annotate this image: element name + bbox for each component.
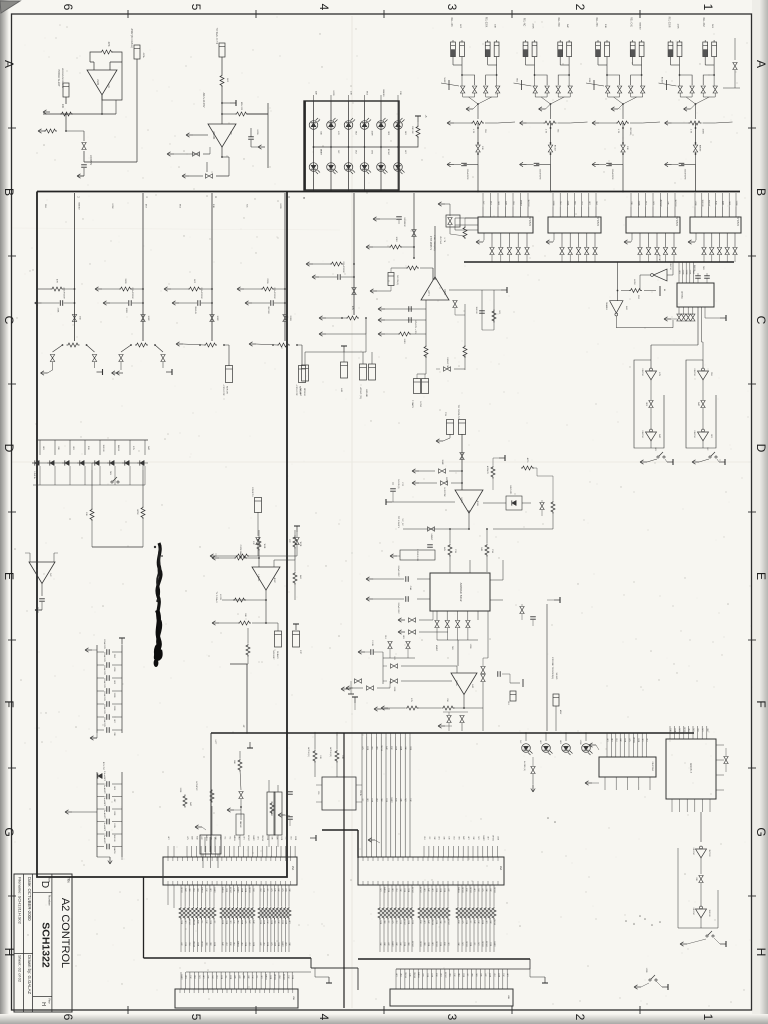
diode lower stubs bbox=[39, 466, 41, 485]
connector J21 inner pin marks bbox=[167, 857, 169, 861]
channel area box bbox=[37, 192, 287, 878]
svg-text:0.3mA NPT: 0.3mA NPT bbox=[103, 833, 106, 844]
LED column top labels bbox=[313, 95, 315, 101]
svg-text:JPW2 (3C CABLE): JPW2 (3C CABLE) bbox=[130, 28, 133, 48]
svg-text:2K2: 2K2 bbox=[229, 920, 231, 923]
svg-text:15K: 15K bbox=[79, 316, 81, 320]
capacitor CB3 bbox=[606, 162, 612, 164]
ground bbox=[680, 943, 687, 945]
svg-text:220N: 220N bbox=[263, 888, 265, 893]
resistor R37 bbox=[463, 226, 467, 239]
relay block K1 bowtie row bbox=[461, 86, 465, 93]
relay block K2 lower wire bbox=[550, 152, 552, 165]
svg-text:0R0: 0R0 bbox=[188, 888, 190, 891]
relay block K2 vertical bbox=[550, 123, 552, 145]
relay block K1 left T bbox=[441, 83, 459, 86]
wire J2 down bbox=[221, 57, 223, 74]
series resistor R166 bbox=[403, 885, 405, 906]
bowtie R105 bbox=[540, 503, 544, 510]
wire bbox=[239, 835, 241, 847]
wire U21 to buffers bbox=[697, 307, 699, 345]
long arrow bbox=[319, 317, 326, 319]
svg-text:2N7002: 2N7002 bbox=[492, 835, 494, 841]
diode lower rail bbox=[33, 484, 145, 486]
svg-text:330R: 330R bbox=[220, 975, 222, 980]
svg-text:2N7002: 2N7002 bbox=[469, 887, 471, 893]
LED DS5 bbox=[377, 121, 386, 130]
channel 3 output box bbox=[224, 344, 229, 346]
power bar bbox=[639, 291, 658, 293]
svg-text:CH1: CH1 bbox=[184, 975, 186, 979]
channel 3 series resistor bbox=[204, 343, 217, 347]
power bbox=[720, 317, 726, 319]
svg-text:BC847: BC847 bbox=[411, 941, 413, 947]
svg-text:BAV99: BAV99 bbox=[117, 445, 120, 452]
svg-text:1N4148: 1N4148 bbox=[192, 919, 194, 925]
svg-text:BC847: BC847 bbox=[444, 972, 446, 978]
LED row 4 wires bbox=[525, 733, 527, 741]
svg-text:MDC/4P1: MDC/4P1 bbox=[509, 486, 511, 496]
svg-text:220K: 220K bbox=[57, 308, 59, 313]
svg-text:3: 3 bbox=[445, 4, 459, 11]
svg-text:CH1: CH1 bbox=[395, 888, 397, 892]
LED DS12 bbox=[394, 163, 403, 172]
component J2 box bbox=[219, 43, 225, 57]
resistor RB1 bbox=[471, 121, 484, 125]
svg-text:1N4148: 1N4148 bbox=[192, 941, 194, 947]
series resistor R135 bbox=[277, 885, 279, 906]
svg-text:1K2: 1K2 bbox=[452, 836, 454, 839]
node junction A1 bbox=[101, 113, 103, 115]
svg-text:4N7: 4N7 bbox=[440, 973, 442, 976]
channel 4 capacitor bbox=[270, 300, 272, 306]
LED DS1 bbox=[309, 121, 318, 130]
svg-text:4.7K: 4.7K bbox=[690, 129, 692, 134]
series resistor R131 bbox=[184, 885, 186, 906]
svg-text:0.3mA NPT: 0.3mA NPT bbox=[103, 783, 106, 794]
svg-text:BAV99: BAV99 bbox=[233, 835, 236, 840]
svg-text:1N4148: 1N4148 bbox=[261, 835, 263, 841]
svg-text:0.3mA NPT: 0.3mA NPT bbox=[103, 771, 106, 782]
svg-text:CH1: CH1 bbox=[242, 836, 244, 840]
svg-text:BC847: BC847 bbox=[485, 941, 487, 947]
series resistor R165 bbox=[399, 885, 401, 906]
bowtie R100 bbox=[460, 453, 464, 460]
relay block K1 drop to latch bbox=[477, 165, 479, 192]
svg-text:100R: 100R bbox=[469, 942, 471, 947]
resistor R30 bbox=[330, 262, 343, 266]
IC U21 pins up bbox=[678, 262, 680, 283]
relay block K1 vertical bbox=[477, 123, 479, 145]
svg-text:SUB&8Y: SUB&8Y bbox=[276, 651, 278, 660]
series resistor R135 bbox=[240, 885, 242, 906]
channel 3 input arrow bbox=[164, 288, 171, 290]
svg-text:CLK: CLK bbox=[710, 372, 712, 377]
resistor R95 bbox=[238, 621, 251, 625]
switch SW5 bbox=[706, 935, 708, 937]
wire J11 down bbox=[461, 434, 463, 490]
relay block K4 drop to latch bbox=[695, 165, 697, 192]
bus line H2 bbox=[311, 967, 358, 969]
series resistor R168 bbox=[489, 885, 491, 906]
ladder F capacitor C53 bbox=[97, 690, 104, 692]
svg-text:100R: 100R bbox=[407, 920, 409, 925]
ladder F capacitor C51 bbox=[97, 664, 104, 666]
wires left of latch1 bbox=[455, 217, 478, 219]
svg-text:4 TRU STR: 4 TRU STR bbox=[295, 385, 297, 396]
relay block K4 vertical bbox=[695, 123, 697, 145]
svg-text:100R: 100R bbox=[427, 942, 429, 947]
ground bbox=[35, 609, 42, 611]
IC U21 pins down bbox=[678, 307, 680, 315]
svg-text:LM45: LM45 bbox=[96, 79, 99, 86]
bowtie R142 bbox=[724, 757, 728, 764]
svg-text:H: H bbox=[40, 1002, 46, 1006]
buffer U31b bbox=[702, 408, 704, 429]
wire out left bbox=[222, 599, 266, 601]
svg-text:100N: 100N bbox=[409, 746, 411, 751]
svg-text:V.C_2V: V.C_2V bbox=[401, 519, 403, 527]
svg-text:220nF/100V: 220nF/100V bbox=[273, 287, 275, 299]
channel 2 capacitor bbox=[128, 300, 130, 306]
svg-text:2K2: 2K2 bbox=[260, 975, 262, 978]
svg-text:1K2: 1K2 bbox=[477, 942, 479, 945]
IC U51 hatch pins bbox=[606, 733, 608, 757]
svg-text:330R: 330R bbox=[481, 920, 483, 925]
arrow in bbox=[306, 263, 313, 265]
wire chains top link bbox=[650, 344, 652, 346]
junction bbox=[65, 130, 67, 132]
junction bbox=[65, 113, 67, 115]
series resistor R132 bbox=[229, 885, 231, 906]
arrow bbox=[589, 744, 596, 746]
cap C80 bbox=[530, 616, 536, 618]
LED mid rail bbox=[314, 146, 399, 148]
capacitor CB2 bbox=[534, 162, 540, 164]
LED DS7 bbox=[309, 163, 318, 172]
series resistor R137 bbox=[209, 885, 211, 906]
svg-text:100N: 100N bbox=[274, 942, 276, 947]
resistor R39 bbox=[398, 332, 411, 336]
relay box K10 bbox=[322, 777, 356, 810]
channel 2 vertical wire bbox=[142, 193, 144, 341]
svg-text:2N7002: 2N7002 bbox=[461, 887, 463, 893]
ladder F capacitor C50 bbox=[97, 651, 104, 653]
svg-text:2: 2 bbox=[573, 4, 587, 11]
diode row top rail bbox=[37, 439, 148, 441]
svg-text:4N7: 4N7 bbox=[375, 798, 377, 801]
svg-text:100N: 100N bbox=[113, 823, 115, 828]
switch SW31 ground bbox=[692, 461, 699, 463]
switch SW31 power bbox=[719, 461, 725, 463]
ink smudge mark bbox=[157, 543, 161, 657]
left caps arrows bbox=[378, 308, 385, 310]
svg-text:120K: 120K bbox=[588, 78, 590, 83]
scan corner mark top-left bbox=[0, 1, 20, 13]
svg-text:220N: 220N bbox=[281, 920, 283, 925]
series resistor R167 bbox=[447, 885, 449, 906]
svg-text:560R: 560R bbox=[637, 738, 639, 743]
svg-text:47N: 47N bbox=[132, 446, 134, 450]
series resistor R162 bbox=[427, 885, 429, 906]
channel 3 resistor Rn1 bbox=[188, 287, 201, 291]
wire v547 bbox=[546, 604, 548, 731]
svg-text:5: 5 bbox=[189, 1014, 203, 1021]
component box J7 bbox=[293, 631, 300, 647]
scan edge shading right bbox=[0, 0, 1, 1]
resistor R106 bbox=[551, 501, 555, 514]
svg-text:ACT-H2(2): ACT-H2(2) bbox=[329, 747, 332, 757]
series resistor R164 bbox=[473, 885, 475, 906]
svg-text:8K2: 8K2 bbox=[431, 942, 433, 945]
wire feedback right bbox=[247, 103, 268, 168]
svg-text:C: C bbox=[754, 316, 768, 325]
svg-text:220nF/LPN: 220nF/LPN bbox=[684, 169, 686, 180]
svg-text:J5A: J5A bbox=[291, 866, 294, 871]
power T bbox=[499, 457, 505, 459]
svg-text:BC847: BC847 bbox=[387, 149, 389, 156]
svg-text:74HC04: 74HC04 bbox=[693, 368, 695, 376]
bowtie C33 bbox=[444, 367, 451, 371]
series resistor R131 bbox=[263, 885, 265, 906]
wire J5 down bbox=[257, 512, 259, 536]
component X3 crystal box bbox=[63, 83, 69, 97]
feedback cap bbox=[497, 671, 499, 677]
ladder G capacitor C60 bbox=[97, 783, 104, 785]
svg-text:F: F bbox=[2, 700, 16, 707]
svg-text:2N7002: 2N7002 bbox=[267, 306, 269, 314]
diode D5 bbox=[99, 440, 101, 455]
svg-text:0R0: 0R0 bbox=[471, 973, 473, 976]
wire to boxes bbox=[266, 622, 278, 624]
wire long v bbox=[246, 664, 248, 733]
svg-text:10K: 10K bbox=[61, 104, 64, 109]
svg-text:BAV99: BAV99 bbox=[78, 203, 81, 210]
svg-text:220K: 220K bbox=[689, 270, 691, 275]
svg-text:STROBE TRIGGER(1): STROBE TRIGGER(1) bbox=[551, 657, 553, 679]
buffer chain bottom bbox=[700, 918, 702, 928]
wire down right bbox=[365, 318, 367, 334]
switch SW30 ground bbox=[640, 461, 647, 463]
buffer U53a bbox=[700, 846, 703, 849]
channel 1 fork ends bbox=[52, 362, 54, 370]
ground bbox=[532, 785, 534, 792]
svg-text:220N: 220N bbox=[266, 836, 268, 841]
svg-text:IDT/HC: IDT/HC bbox=[680, 291, 682, 299]
svg-text:74HC04: 74HC04 bbox=[692, 847, 694, 855]
node bbox=[413, 257, 415, 259]
svg-text:100R: 100R bbox=[645, 968, 647, 973]
IC U41 right pins bbox=[490, 579, 503, 581]
IC U52 side pins bbox=[716, 744, 724, 746]
svg-text:220nF/100V: 220nF/100V bbox=[63, 287, 65, 299]
IC U41 left pins bbox=[417, 578, 430, 580]
svg-text:74HC574: 74HC574 bbox=[675, 216, 678, 227]
series resistor R135 bbox=[201, 885, 203, 906]
svg-text:F: F bbox=[754, 700, 768, 707]
relay block K1 fork bbox=[463, 93, 475, 97]
power T right bbox=[554, 599, 560, 601]
svg-text:A/5WLT1: A/5WLT1 bbox=[486, 466, 489, 475]
bowtie RB1b bbox=[476, 145, 480, 152]
svg-text:100R: 100R bbox=[147, 316, 149, 321]
channel 2 fork ends bbox=[120, 362, 122, 370]
resistor R50 bbox=[220, 74, 224, 87]
IC latch U10 box bbox=[478, 217, 533, 233]
wires from bus bbox=[314, 733, 316, 749]
svg-text:100N: 100N bbox=[497, 836, 499, 841]
channel 2 resistor Rn1 bbox=[119, 287, 132, 291]
svg-text:P/LDB TX: P/LDB TX bbox=[251, 487, 253, 497]
svg-text:220nF/63V: 220nF/63V bbox=[103, 704, 105, 714]
wire J10 gnd bbox=[449, 434, 451, 438]
svg-text:560R: 560R bbox=[443, 78, 445, 83]
svg-text:0R0: 0R0 bbox=[209, 942, 211, 945]
svg-text:1K2: 1K2 bbox=[193, 975, 195, 978]
svg-text:330R: 330R bbox=[221, 920, 223, 925]
feedback wire right bbox=[493, 512, 553, 529]
svg-text:CH1: CH1 bbox=[257, 836, 259, 840]
svg-text:0R0: 0R0 bbox=[380, 798, 382, 801]
svg-text:4: 4 bbox=[317, 4, 331, 11]
IC latch U10 pins down bbox=[491, 233, 493, 247]
IC latch U12 lower bowties bbox=[638, 248, 642, 255]
switch SW31 bbox=[709, 456, 711, 458]
svg-text:1K2: 1K2 bbox=[678, 728, 680, 731]
relay block K3 drop to latch bbox=[622, 165, 624, 192]
channel 1 resistor Rn1 bbox=[51, 287, 64, 291]
diode D2 bbox=[54, 440, 56, 455]
bowtie R53 bbox=[206, 174, 213, 178]
svg-text:45 CH4: 45 CH4 bbox=[439, 236, 441, 244]
series resistor R134 bbox=[237, 885, 239, 906]
ladder F capacitor C56 bbox=[97, 729, 104, 731]
svg-text:MMBT: MMBT bbox=[252, 835, 254, 841]
svg-text:MMBT: MMBT bbox=[281, 941, 283, 947]
svg-text:220N: 220N bbox=[289, 316, 291, 321]
svg-text:1N4148: 1N4148 bbox=[701, 199, 703, 207]
svg-text:100N: 100N bbox=[469, 644, 471, 649]
zener D30 bbox=[98, 773, 102, 778]
resistor R51 bbox=[235, 112, 248, 116]
svg-text:47K: 47K bbox=[107, 42, 111, 47]
wire to opamp bbox=[221, 86, 223, 124]
svg-text:CH1: CH1 bbox=[395, 920, 397, 924]
svg-text:B: B bbox=[302, 197, 306, 199]
svg-text:100N: 100N bbox=[225, 888, 227, 893]
series resistor R166 bbox=[481, 885, 483, 906]
svg-text:L.PT: L.PT bbox=[214, 740, 216, 745]
resistor R94 bbox=[233, 598, 246, 602]
relay block K2 coil wires bbox=[525, 57, 527, 65]
svg-text:TW JAVI: TW JAVI bbox=[299, 388, 302, 396]
svg-text:RL/A: RL/A bbox=[359, 791, 362, 796]
channel 3 bowtie bbox=[210, 315, 214, 322]
svg-text:8K2: 8K2 bbox=[209, 888, 211, 891]
svg-text:2K2: 2K2 bbox=[447, 942, 449, 945]
capacitor C40 bbox=[39, 598, 45, 600]
svg-text:4K7: 4K7 bbox=[506, 973, 508, 976]
channel 3 cap arrow bbox=[172, 302, 179, 304]
svg-text:74HC574: 74HC574 bbox=[596, 216, 599, 227]
svg-text:MMBT: MMBT bbox=[391, 941, 393, 947]
svg-text:1K2: 1K2 bbox=[461, 942, 463, 945]
svg-text:100R: 100R bbox=[225, 920, 227, 925]
svg-text:220nF/LPN: 220nF/LPN bbox=[539, 169, 541, 180]
series resistor R130 bbox=[259, 885, 261, 906]
series resistor R160 bbox=[419, 885, 421, 906]
resistor R60 bbox=[100, 50, 113, 54]
relay block K4 coil boxes bbox=[668, 42, 673, 57]
wire down from R61 bbox=[65, 114, 67, 131]
wire long y162 bbox=[88, 161, 137, 163]
svg-text:220nF/63V: 220nF/63V bbox=[103, 678, 105, 688]
capacitor C30 bbox=[337, 274, 339, 280]
svg-text:J17A: J17A bbox=[142, 53, 145, 59]
svg-text:1M0: 1M0 bbox=[284, 888, 286, 892]
relay block K1 fork ground bbox=[466, 108, 473, 110]
svg-text:J6B: J6B bbox=[507, 995, 509, 999]
svg-text:100R: 100R bbox=[371, 131, 373, 136]
svg-text:Number: Number bbox=[48, 895, 52, 906]
channel 4 vertical wire bbox=[284, 193, 286, 341]
small box left bbox=[446, 215, 460, 227]
relay block K1 link steps bbox=[462, 75, 475, 85]
relay block K1 right continuation bbox=[498, 122, 515, 123]
svg-text:BC847: BC847 bbox=[411, 887, 413, 893]
channel 4 long arrow bbox=[249, 343, 256, 345]
output boxes ch5 bbox=[365, 334, 367, 352]
relay block K3 wire to resistor bbox=[622, 104, 624, 119]
IC latch U11 pins up bbox=[552, 207, 554, 217]
svg-text:220nF/100V: 220nF/100V bbox=[397, 603, 399, 615]
ground bbox=[664, 318, 671, 320]
channel 1 series resistor bbox=[67, 343, 80, 347]
svg-text:2N7002: 2N7002 bbox=[180, 887, 182, 893]
svg-text:1K2: 1K2 bbox=[692, 728, 694, 731]
svg-text:5K6: 5K6 bbox=[371, 746, 373, 749]
svg-text:0.3mA NPT: 0.3mA NPT bbox=[103, 808, 106, 819]
svg-text:220nF/63V: 220nF/63V bbox=[103, 717, 105, 727]
svg-text:CLK: CLK bbox=[512, 201, 514, 206]
svg-text:220N: 220N bbox=[411, 920, 413, 925]
svg-text:100R: 100R bbox=[277, 942, 279, 947]
series resistor R165 bbox=[477, 885, 479, 906]
caps above input rail bbox=[370, 649, 372, 655]
wire out left bbox=[403, 528, 469, 530]
wire to opamp U42 bbox=[457, 640, 459, 666]
opamp U42 input bowties bbox=[382, 652, 384, 684]
diode D7 bbox=[129, 440, 131, 455]
series resistor R167 bbox=[407, 885, 409, 906]
svg-text:2N7002: 2N7002 bbox=[683, 727, 685, 733]
wire bbox=[240, 806, 242, 808]
IC U41 big box bbox=[430, 573, 490, 611]
svg-text:MMBT: MMBT bbox=[180, 974, 182, 980]
svg-text:C/MULT.7MS: C/MULT.7MS bbox=[446, 357, 448, 369]
svg-text:1K2: 1K2 bbox=[701, 728, 703, 731]
svg-text:E: E bbox=[2, 572, 16, 580]
strobe component box bbox=[553, 694, 559, 706]
svg-text:120K: 120K bbox=[677, 23, 679, 29]
series resistor R161 bbox=[461, 885, 463, 906]
series resistor R165 bbox=[439, 885, 441, 906]
series resistor R169 bbox=[493, 885, 495, 906]
svg-text:330R: 330R bbox=[240, 920, 242, 925]
svg-text:2: 2 bbox=[573, 1014, 587, 1021]
LED DS22 bbox=[562, 744, 571, 753]
channel 1 capacitor bbox=[59, 300, 61, 306]
